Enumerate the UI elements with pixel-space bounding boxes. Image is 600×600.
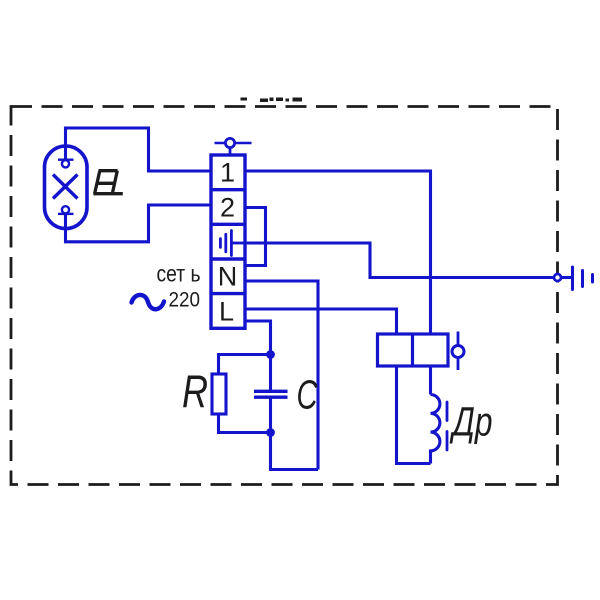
wire switch right to choke top [429,366,432,395]
wire RC top branch to resistor [219,355,271,375]
wire terminal L to switch [245,309,397,334]
wire ground stub [562,276,572,279]
wire terminal L to RC junction [245,321,271,355]
terminal block XT [211,155,245,328]
node junction RC top [266,350,275,359]
inductor core dashes [446,402,449,450]
svg-text:сет ь: сет ь [157,261,201,287]
switch adjust screw [452,332,464,371]
terminal earth symbol [220,231,245,256]
lamp EL body [45,146,88,229]
inductor Др coil [431,395,440,464]
resistor R [212,374,226,414]
svg-text:N: N [218,262,238,292]
svg-text:1: 1 [220,158,235,188]
enclosure ground terminal [554,274,561,281]
capacitor C [254,391,288,397]
wire terminal 2 loop [245,208,266,266]
lamp top contact [58,160,74,168]
svg-text:R: R [182,366,208,418]
ground symbol [573,267,593,290]
node junction RC bottom [266,428,275,437]
wire RC return to N [271,433,319,470]
wire lamp top to terminal 1 [66,128,212,171]
svg-text:L: L [219,297,234,327]
switch contact block S [378,334,449,366]
wire capacitor bottom lead [269,399,272,433]
wire terminal 1 to switch [245,171,431,334]
label EL [93,171,122,194]
svg-text:220: 220 [169,288,201,312]
wire terminal N to RC return [245,281,318,470]
wire switch left to choke bottom [397,366,431,464]
wire earth terminal to enclosure ground [245,243,554,278]
wire lamp bottom to terminal 2 [66,205,212,242]
svg-text:C: C [297,372,318,418]
svg-text:Др: Др [449,399,492,445]
enclosure dashed boundary [11,107,558,485]
wire resistor bottom branch [219,414,271,433]
AC tilde symbol [132,295,165,309]
svg-text:2: 2 [220,193,235,223]
lamp bottom contact [58,206,74,214]
wire capacitor top lead [269,355,272,391]
terminal screw above block [215,138,252,155]
cropped caption text fragments [241,98,303,103]
